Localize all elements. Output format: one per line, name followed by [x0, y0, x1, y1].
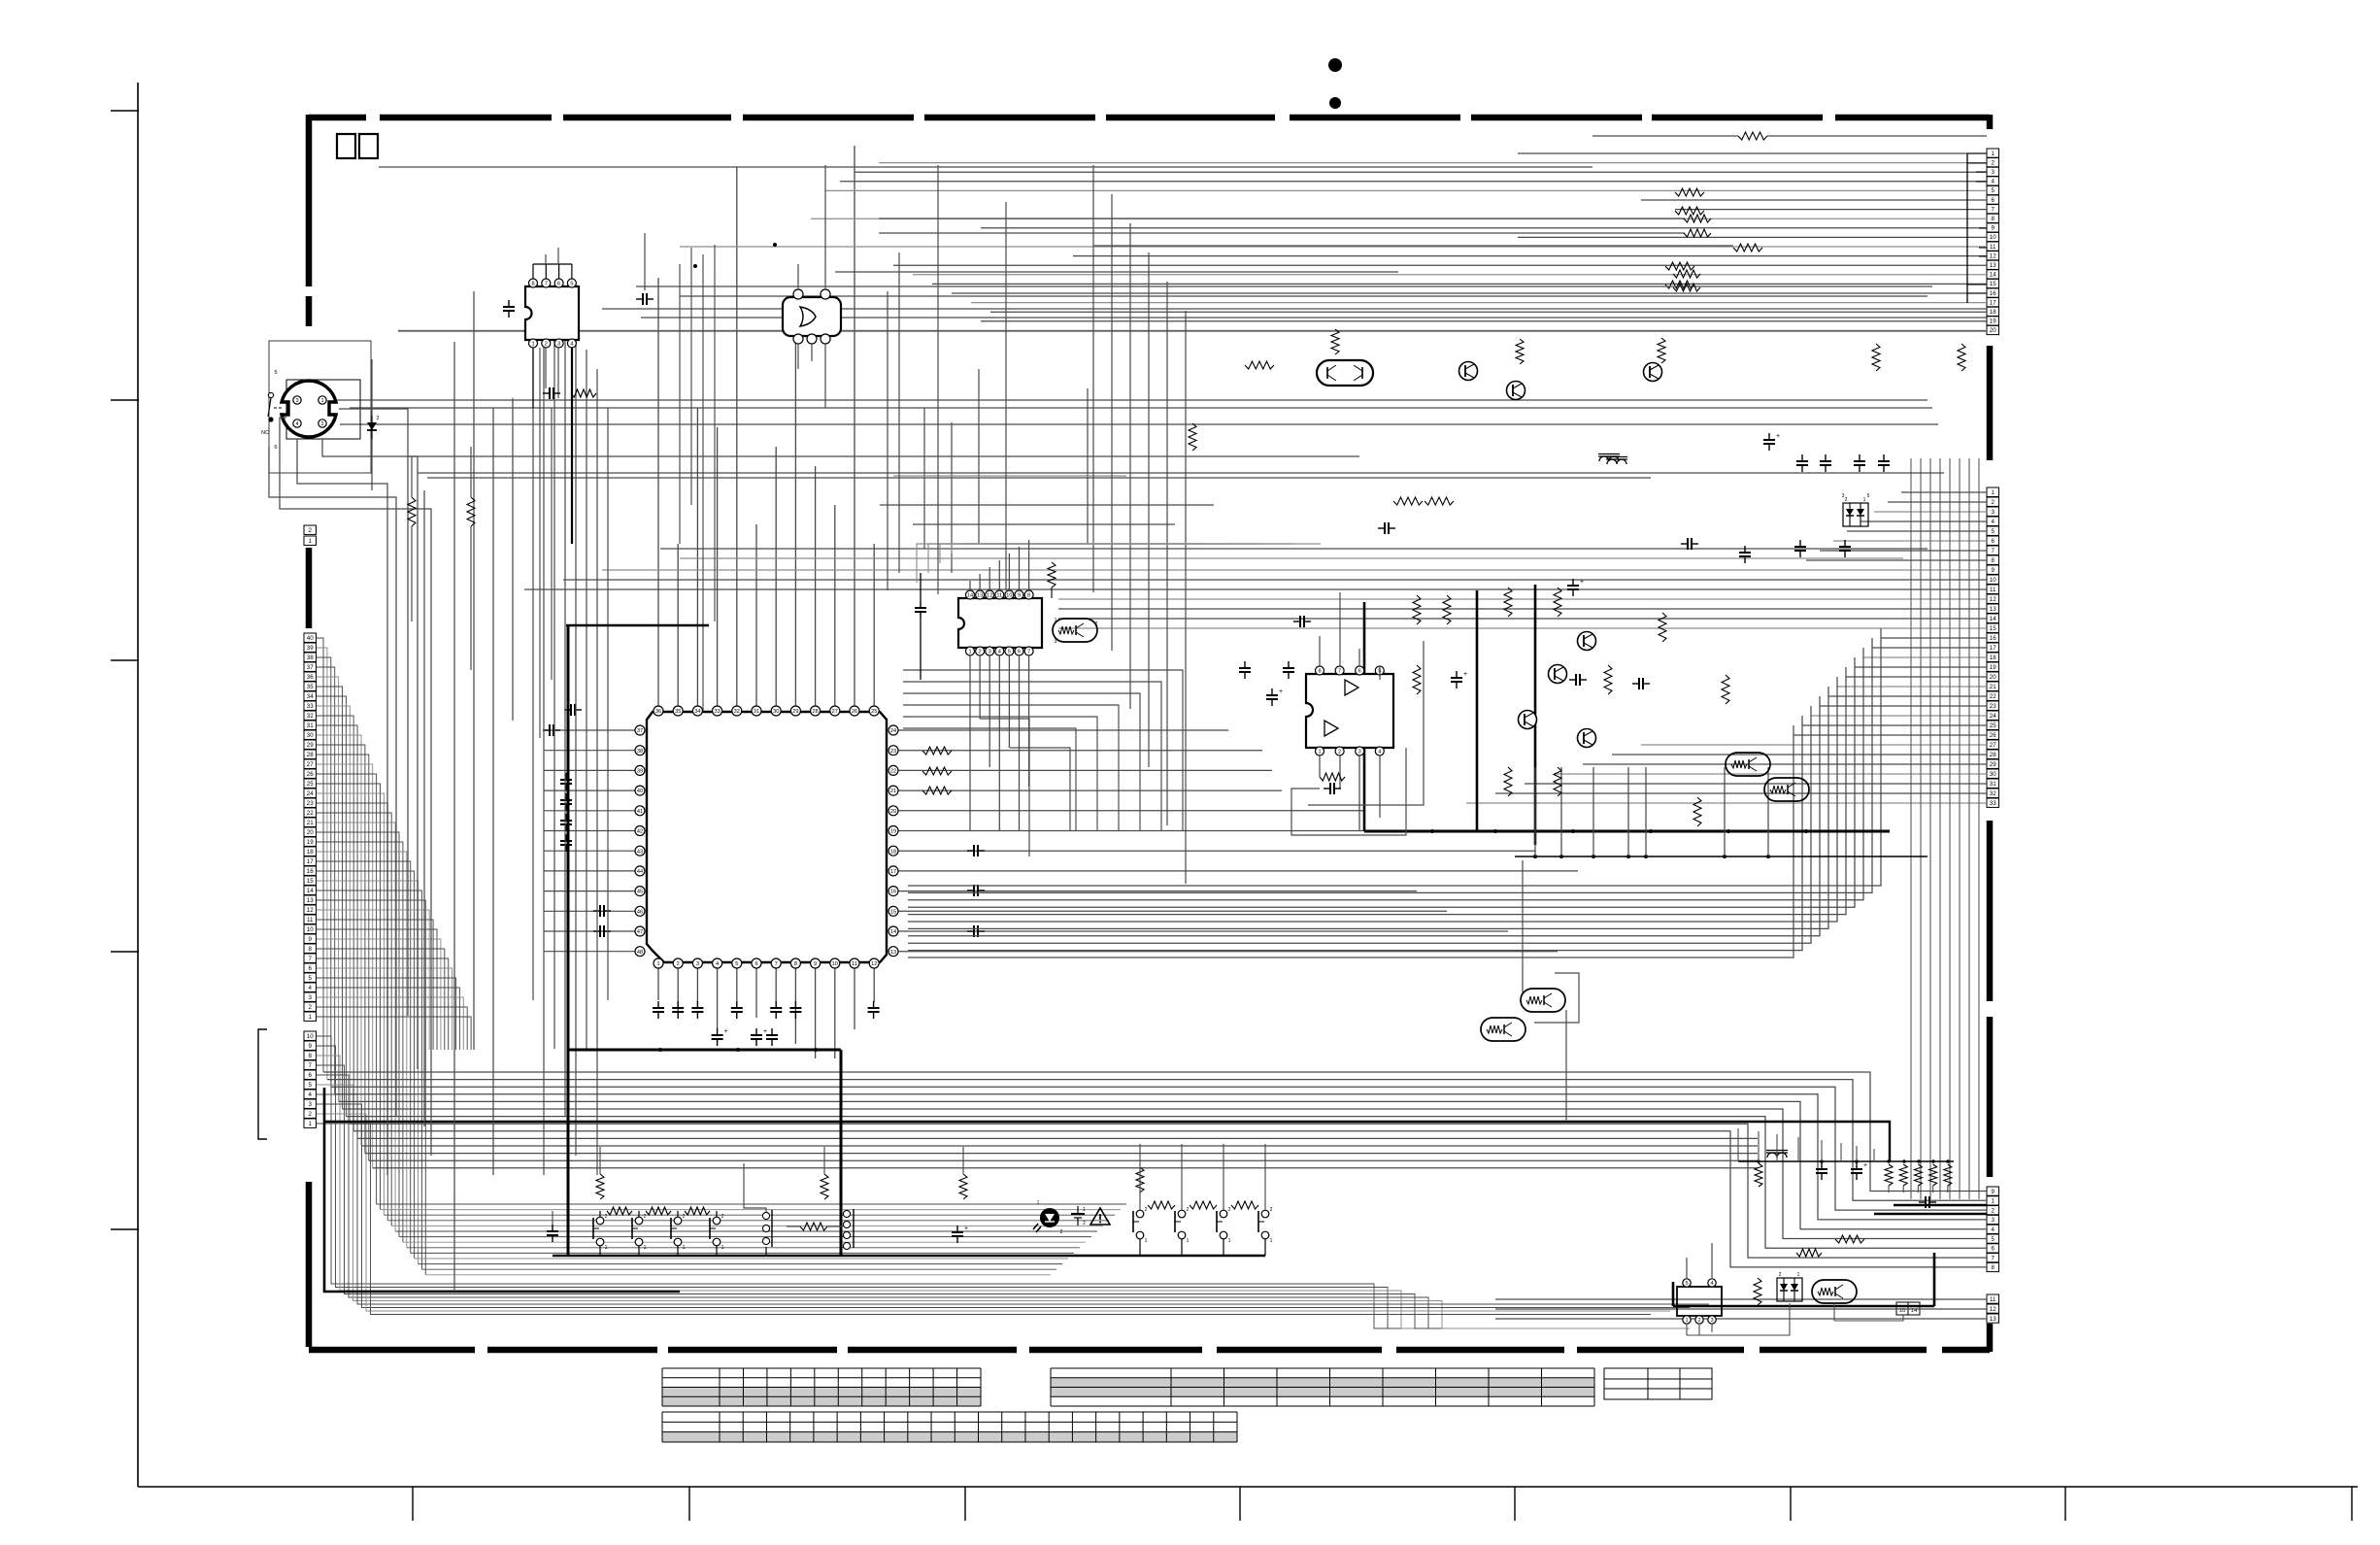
power bus bottom right	[1673, 1305, 1934, 1308]
svg-text:17: 17	[1990, 299, 1996, 306]
svg-text:8: 8	[1992, 557, 1995, 564]
svg-text:27: 27	[1990, 742, 1996, 749]
cap 1876	[1816, 1168, 1827, 1170]
svg-text:2: 2	[1338, 750, 1341, 756]
R resistor above IC3 right	[1048, 562, 1056, 588]
svg-text:30: 30	[307, 732, 314, 739]
IC5 pin 13	[888, 947, 898, 957]
nested loop wires above IC3	[917, 544, 1204, 583]
svg-text:6: 6	[557, 282, 560, 287]
svg-text:15: 15	[890, 909, 896, 915]
IC3 pin 6	[1015, 647, 1023, 655]
svg-text:2: 2	[377, 416, 380, 421]
transistor Q201	[1507, 382, 1525, 400]
svg-text:19: 19	[307, 839, 314, 846]
svg-text:3: 3	[1710, 1318, 1713, 1324]
dual digital transistor Q207	[1317, 360, 1373, 386]
ecap far right	[952, 1231, 963, 1233]
C cap left of IC3	[915, 607, 926, 609]
DIN jack pin 3	[293, 396, 301, 404]
svg-text:13: 13	[1990, 1316, 1996, 1323]
svg-text:13: 13	[890, 950, 896, 956]
svg-text:NC: NC	[261, 430, 269, 436]
IC5 right pin stub wires	[898, 729, 1228, 731]
svg-text:22: 22	[1990, 693, 1996, 700]
svg-text:6: 6	[309, 1072, 313, 1079]
svg-text:17: 17	[1990, 645, 1996, 652]
svg-text:43: 43	[637, 849, 643, 855]
IC5 pin 1	[654, 958, 663, 968]
svg-text:2: 2	[545, 342, 548, 348]
IC5 pin 6	[752, 958, 761, 968]
transistor Q202	[1644, 363, 1662, 382]
svg-text:5: 5	[735, 961, 738, 967]
svg-text:24: 24	[890, 728, 896, 734]
svg-text:3: 3	[1842, 493, 1845, 499]
R ladder to connector	[1885, 1164, 1893, 1186]
svg-text:1: 1	[656, 961, 659, 967]
svg-text:16: 16	[1990, 635, 1996, 642]
svg-text:1: 1	[1187, 1238, 1190, 1244]
svg-text:19: 19	[1990, 319, 1996, 325]
DIN jack pin 1	[318, 396, 326, 404]
svg-text:5: 5	[1685, 1281, 1688, 1287]
svg-text:39: 39	[637, 769, 643, 775]
R109 resistor	[571, 389, 596, 397]
connector CN right-top pins 1-20	[1987, 149, 1999, 157]
svg-text:9: 9	[1992, 225, 1995, 232]
svg-text:1: 1	[531, 342, 534, 348]
svg-text:34: 34	[307, 693, 314, 700]
long wires upper area	[379, 166, 1592, 168]
transistor Q204	[1519, 711, 1537, 729]
IC2 pin top 1	[793, 289, 803, 299]
svg-text:6: 6	[1992, 197, 1995, 204]
IC5 pin 45	[635, 887, 645, 896]
IC3 pin 7	[1024, 647, 1033, 655]
capacitor row under IC5	[653, 1007, 664, 1009]
svg-text:10: 10	[307, 1033, 314, 1040]
IC4 pin 8	[1316, 666, 1324, 675]
power bus horizontal right	[1364, 830, 1890, 833]
svg-text:1: 1	[1318, 750, 1321, 756]
R chain left switches	[607, 1207, 632, 1215]
svg-text:1: 1	[1055, 618, 1057, 623]
IC5 pin 17	[888, 866, 898, 876]
wire harness left lower connector 10-1	[317, 1036, 1690, 1328]
svg-text:40: 40	[307, 635, 314, 642]
svg-text:+: +	[1863, 1162, 1867, 1169]
svg-text:9: 9	[1992, 1189, 1995, 1195]
svg-text:2: 2	[1779, 1272, 1782, 1278]
svg-text:2: 2	[605, 1214, 608, 1220]
svg-text:33: 33	[307, 703, 314, 710]
caps left of IC5 rows	[560, 779, 572, 781]
svg-text:6: 6	[1992, 1246, 1995, 1253]
svg-text:3: 3	[1992, 509, 1995, 516]
svg-text:4: 4	[998, 650, 1001, 655]
svg-text:3: 3	[1992, 169, 1995, 176]
IC3 pin 5	[1005, 647, 1014, 655]
svg-text:6: 6	[274, 445, 277, 451]
svg-text:1: 1	[1992, 151, 1995, 157]
IC4 pin 1	[1316, 747, 1324, 756]
svg-text:1: 1	[721, 1245, 724, 1251]
svg-text:18: 18	[307, 849, 314, 856]
IC5 pin 28	[811, 706, 821, 716]
IC3 pin 3	[986, 647, 994, 655]
switch S203	[1220, 1210, 1227, 1218]
nested loop wires right of IC3	[903, 670, 1183, 831]
svg-text:17: 17	[890, 869, 896, 875]
svg-text:42: 42	[637, 829, 643, 835]
svg-text:4: 4	[295, 421, 298, 427]
R v 1811	[1755, 1163, 1762, 1187]
svg-text:4: 4	[309, 1092, 313, 1098]
svg-text:31: 31	[1990, 781, 1996, 788]
R106 resistor	[1733, 244, 1762, 252]
IC1 pin 6	[554, 279, 563, 287]
DIN jack outer box	[269, 341, 371, 473]
svg-text:11: 11	[1990, 244, 1996, 251]
svg-text:+: +	[1776, 433, 1780, 440]
R left of 4pin connector	[800, 1223, 827, 1230]
R horizontal bottom right	[1835, 1235, 1864, 1243]
IC2 gate body	[783, 297, 841, 336]
long wires middle band	[330, 399, 1927, 401]
IC5 pin 5	[732, 958, 742, 968]
R bottom right resistors	[1754, 1278, 1761, 1305]
coil L301	[1767, 1153, 1787, 1158]
svg-text:6: 6	[1992, 538, 1995, 545]
svg-text:39: 39	[307, 645, 314, 652]
wire zener to bus	[371, 439, 373, 490]
svg-text:2: 2	[1697, 1318, 1700, 1324]
svg-text:7: 7	[1992, 548, 1995, 554]
svg-text:9: 9	[814, 961, 817, 967]
wires bottom right block	[1686, 1325, 1688, 1335]
IC5 pin 11	[850, 958, 859, 968]
svg-text:25: 25	[1990, 722, 1996, 729]
IC5 pin 29	[790, 706, 800, 716]
svg-text:3: 3	[989, 650, 991, 655]
IC3 pin 9	[1015, 590, 1023, 599]
DIN jack J101 body	[282, 381, 336, 437]
IC5 pin 8	[790, 958, 800, 968]
svg-text:2: 2	[1083, 1221, 1086, 1226]
wire fan to right-top connector	[1518, 152, 1987, 154]
wire fan to right-mid connector	[1901, 491, 1987, 493]
svg-text:16: 16	[1990, 290, 1996, 297]
IC4 pin 3	[1356, 747, 1364, 756]
svg-text:14: 14	[1990, 616, 1996, 622]
svg-text:5: 5	[309, 1082, 313, 1089]
R vertical far right	[959, 1174, 967, 1199]
svg-text:32: 32	[307, 713, 314, 720]
svg-text:1: 1	[683, 1245, 686, 1251]
svg-text:14: 14	[890, 929, 896, 935]
svg-text:14: 14	[307, 888, 314, 894]
resistors mid right	[1516, 339, 1524, 364]
digital transistor Q301	[1812, 1280, 1857, 1303]
svg-text:2: 2	[979, 650, 982, 655]
bus verticals middle	[1363, 602, 1366, 831]
svg-text:13: 13	[1990, 606, 1996, 613]
junction row y882	[1515, 856, 1927, 857]
switch S201	[1136, 1210, 1144, 1218]
resistors near top right connector	[1872, 344, 1880, 371]
vertical bundle mid	[1092, 165, 1094, 592]
IC5 pin 14	[888, 926, 898, 936]
coil L201	[1607, 459, 1626, 464]
svg-text:23: 23	[1990, 703, 1996, 710]
R vertical pin fan	[1189, 423, 1196, 451]
svg-text:24: 24	[1990, 713, 1996, 720]
R pin21	[922, 787, 952, 794]
svg-text:2: 2	[1992, 499, 1995, 506]
svg-text:+: +	[964, 1226, 968, 1232]
board outline dashed bottom	[309, 1347, 475, 1354]
IC5 pin 7	[771, 958, 781, 968]
C107 capacitor	[549, 387, 551, 399]
svg-text:+: +	[1463, 671, 1467, 678]
IC3 pin 14	[966, 590, 975, 599]
wire bus IC5 bottom caps	[657, 968, 659, 1000]
dual diode D201	[1843, 503, 1868, 526]
R207 base resistor	[1245, 361, 1274, 369]
R above first switch	[596, 1174, 604, 1199]
cap into pin3	[1925, 1196, 1927, 1208]
connector CN right-bottom pins 11-13	[1987, 1294, 1999, 1303]
cap near IC2	[642, 293, 644, 305]
svg-text:15: 15	[1990, 281, 1996, 287]
svg-text:13: 13	[1990, 262, 1996, 269]
IC5 pin 48	[635, 947, 645, 957]
svg-text:41: 41	[637, 809, 643, 815]
bracket left of lower connector	[258, 1029, 267, 1139]
svg-text:11: 11	[996, 593, 1002, 599]
R pin22	[922, 767, 952, 775]
IC5 left pin stub wires	[544, 729, 635, 731]
svg-text:20: 20	[890, 809, 896, 815]
svg-text:5: 5	[1992, 1236, 1995, 1243]
IC1 body	[525, 286, 579, 340]
svg-text:12: 12	[871, 961, 877, 967]
svg-text:11: 11	[852, 961, 857, 967]
IC3 body	[958, 598, 1042, 648]
svg-text:32: 32	[734, 709, 740, 715]
connector CN right-bottom pins 9,1-8	[1987, 1187, 1999, 1195]
svg-text:44: 44	[637, 869, 643, 875]
junction row y1196	[1738, 1160, 1954, 1162]
svg-text:29: 29	[1990, 761, 1996, 768]
svg-text:33: 33	[1990, 800, 1996, 807]
svg-text:+: +	[724, 1028, 728, 1035]
svg-text:5: 5	[274, 370, 277, 376]
connector CN left-lower pins 10-1	[304, 1031, 317, 1040]
connector CN left pins 40-1	[304, 633, 317, 642]
svg-text:19: 19	[890, 829, 896, 835]
mid web wires	[879, 218, 1685, 219]
svg-text:6: 6	[1358, 669, 1361, 675]
vertical feeds right switches	[1139, 1144, 1141, 1210]
parts table 2	[1051, 1378, 1594, 1388]
IC1 pin 2	[542, 339, 551, 348]
caps near x1860	[1796, 460, 1808, 462]
svg-text:1: 1	[1270, 1238, 1273, 1244]
transistor Q205	[1578, 632, 1596, 651]
svg-text:40: 40	[637, 789, 643, 794]
svg-text:23: 23	[890, 749, 896, 755]
svg-text:5: 5	[1867, 493, 1870, 499]
svg-text:26: 26	[852, 709, 857, 715]
svg-text:2: 2	[1845, 497, 1848, 503]
bus thick entries bottom connector	[1894, 1204, 1987, 1207]
verticals x700 region	[679, 264, 681, 544]
svg-text:2: 2	[683, 1214, 686, 1220]
IC5 pin 44	[635, 866, 645, 876]
svg-text:8: 8	[531, 282, 534, 287]
IC5 pin 18	[888, 846, 898, 856]
svg-text:28: 28	[812, 709, 818, 715]
IC5 pin 38	[635, 746, 645, 756]
IC5 pin 4	[713, 958, 722, 968]
power bus stub y644	[566, 624, 709, 626]
svg-text:16: 16	[307, 868, 314, 875]
svg-text:14: 14	[1990, 272, 1996, 279]
svg-text:20: 20	[1990, 674, 1996, 681]
board outline dashed left	[306, 115, 313, 286]
svg-text:10: 10	[1990, 234, 1996, 241]
IC5 pin 33	[713, 706, 722, 716]
R202 resistor below DIN	[408, 497, 416, 526]
svg-text:30: 30	[773, 709, 779, 715]
svg-text:2: 2	[309, 1111, 313, 1118]
IC5 pin 24	[888, 725, 898, 735]
svg-text:1: 1	[1992, 1198, 1995, 1205]
IC1 pin 1	[529, 339, 538, 348]
IC3 pin 1	[966, 647, 975, 655]
digital transistor Q210	[1521, 989, 1565, 1012]
staircase bundle into mid connector	[908, 628, 1881, 886]
svg-text:1: 1	[1228, 1238, 1231, 1244]
IC5 pin 39	[635, 765, 645, 775]
svg-text:9: 9	[309, 1043, 313, 1050]
IC5 pin 32	[732, 706, 742, 716]
IC2 wires	[797, 264, 799, 289]
svg-text:3: 3	[696, 961, 699, 967]
R104 R105 resistors fan 13 14	[1665, 262, 1694, 270]
parts table 4 small	[1604, 1368, 1712, 1399]
ecap under IC5	[712, 1034, 723, 1036]
svg-text:3: 3	[295, 398, 298, 404]
IC4 pin 2	[1335, 747, 1344, 756]
frame tick marks bottom	[412, 1487, 414, 1521]
R chain right switches	[1136, 1167, 1144, 1192]
switch S102	[635, 1217, 643, 1225]
svg-text:29: 29	[792, 709, 798, 715]
IC4 pin 6	[1356, 666, 1364, 675]
svg-text:6: 6	[1018, 650, 1021, 655]
svg-text:35: 35	[675, 709, 681, 715]
fan to pins 11-13	[1495, 1298, 1874, 1300]
svg-text:19: 19	[1990, 664, 1996, 671]
battery B301	[1077, 1206, 1079, 1214]
IC5 pin 27	[830, 706, 840, 716]
IC4 pin 7	[1335, 666, 1344, 675]
svg-text:11: 11	[1990, 587, 1996, 593]
R101 R102 resistors top fan	[1675, 188, 1704, 196]
svg-text:8: 8	[794, 961, 797, 967]
junction dots buses	[658, 1048, 662, 1052]
IC2 OR gate symbol	[800, 307, 816, 326]
wire harness left connector 40-1	[317, 638, 323, 1072]
connector pin box 10 14	[1896, 1302, 1908, 1315]
svg-text:36: 36	[307, 674, 314, 681]
svg-text:17: 17	[307, 858, 314, 865]
caps right block	[1687, 538, 1689, 550]
svg-text:34: 34	[694, 709, 700, 715]
svg-text:13: 13	[307, 897, 314, 904]
svg-text:2: 2	[1095, 621, 1098, 627]
svg-text:13: 13	[977, 593, 983, 599]
IC3 pin 10	[1005, 590, 1014, 599]
svg-text:1: 1	[644, 1245, 647, 1251]
svg-text:2: 2	[309, 527, 313, 534]
svg-text:22: 22	[307, 810, 314, 817]
svg-text:1: 1	[320, 398, 323, 404]
connector 4pin mid	[843, 1210, 850, 1217]
IC5 pin 19	[888, 826, 898, 836]
IC4 loop wires	[1291, 748, 1406, 835]
svg-text:4: 4	[1992, 519, 1995, 525]
svg-text:4: 4	[1378, 750, 1381, 756]
IC5 pin 34	[692, 706, 702, 716]
parts table 3	[662, 1432, 1237, 1442]
DIN jack pin 2	[318, 420, 326, 427]
svg-text:21: 21	[1990, 684, 1996, 690]
decoupling cap left of IC1	[503, 306, 515, 308]
switch S101	[596, 1217, 604, 1225]
svg-text:2: 2	[1992, 159, 1995, 166]
svg-text:15: 15	[307, 878, 314, 885]
cap left of IC4	[1283, 667, 1294, 669]
IC5 pin 15	[888, 906, 898, 916]
svg-text:9: 9	[1992, 567, 1995, 574]
svg-text:4: 4	[1992, 1226, 1995, 1233]
svg-text:3: 3	[1992, 1217, 1995, 1224]
DIN jack inner box	[286, 380, 360, 439]
svg-text:11: 11	[307, 917, 314, 924]
svg-text:3: 3	[1358, 750, 1361, 756]
svg-text:1: 1	[968, 650, 971, 655]
IC4 body	[1306, 674, 1393, 748]
IC5 pin 26	[850, 706, 859, 716]
IC4 wires	[1319, 636, 1321, 666]
svg-text:21: 21	[890, 789, 896, 794]
resistor pairs top fan right	[1684, 215, 1711, 222]
IC1 pin 3	[554, 339, 563, 348]
ecap 1912	[1851, 1168, 1862, 1170]
wires around Q210 Q211	[1522, 860, 1524, 992]
verticals above IC3 region	[887, 291, 888, 590]
svg-text:28: 28	[307, 752, 314, 758]
IC6 pins 1-3	[1683, 1316, 1691, 1324]
wire bus IC5 top pins up	[657, 278, 659, 706]
IC5 pin 2	[673, 958, 683, 968]
svg-text:1: 1	[1992, 489, 1995, 496]
svg-text:27: 27	[832, 709, 838, 715]
